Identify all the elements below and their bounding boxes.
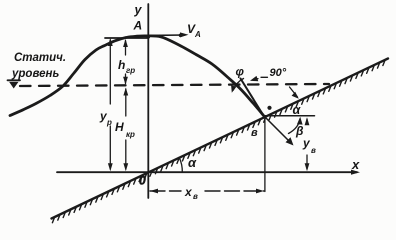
svg-text:h: h (118, 58, 125, 72)
y axis (147, 4, 149, 198)
y_p top arrowhead (108, 38, 113, 46)
svg-text:A: A (133, 19, 143, 33)
inclined ground line (52, 59, 389, 219)
doubled straight stroke of trajectory near impact (241, 79, 264, 116)
svg-text:φ: φ (236, 65, 245, 79)
velocity direction arrow beyond B (264, 116, 291, 143)
velocity vector V_A line (149, 34, 185, 36)
dot at point A (146, 35, 150, 39)
alpha arc arrowhead (292, 92, 299, 99)
H_kr bottom arrowhead (123, 163, 128, 171)
svg-text:Н: Н (115, 120, 124, 134)
dimension h_gr line (125, 41, 127, 84)
svg-text:0: 0 (139, 174, 146, 188)
dot at start of V_A arrowhead (179, 34, 183, 38)
x axis arrowhead (351, 170, 360, 175)
V_A arrowhead (180, 32, 189, 37)
peak level extension line (105, 37, 149, 39)
angle alpha arc at origin (179, 157, 182, 172)
alpha arc at static level crossing (290, 87, 298, 97)
phi arc arrowhead (231, 85, 236, 93)
svg-text:y: y (302, 136, 311, 150)
ground hatching (52, 60, 385, 222)
dimension H_kr line (125, 89, 127, 169)
90deg leader line (253, 77, 268, 79)
phi angle arc (233, 79, 243, 91)
h_gr top arrowhead (123, 39, 128, 47)
y_v top arrowhead (305, 117, 310, 125)
horizontal line from impact point B (264, 115, 315, 117)
dimension y_v line (306, 119, 308, 169)
H_kr top arrowhead (123, 88, 128, 96)
svg-text:кр: кр (126, 130, 135, 139)
y_v bottom arrowhead (305, 163, 310, 171)
svg-text:р: р (106, 118, 112, 127)
x_v left arrowhead (150, 189, 158, 194)
90deg leader arrowhead (250, 76, 258, 81)
x_v right arrowhead (256, 189, 264, 194)
x_v dimension line (150, 190, 264, 192)
svg-text:уровень: уровень (11, 68, 59, 80)
beta arc arrowhead (297, 117, 303, 125)
svg-text:α: α (188, 155, 197, 170)
trajectory curve (groundwater mound / projectile path) (10, 36, 264, 116)
dimension y_p line (109, 40, 111, 169)
svg-text:α: α (293, 103, 302, 117)
dot on incline above B (267, 106, 271, 110)
beta angle arc (289, 119, 301, 134)
h_gr bottom arrowhead (123, 77, 128, 85)
vertical extension below B (264, 116, 266, 192)
x axis (57, 171, 357, 173)
svg-text:в: в (311, 146, 316, 155)
svg-text:в: в (193, 192, 198, 201)
svg-text:x: x (184, 185, 193, 199)
y_p bottom arrowhead (108, 163, 113, 171)
svg-text:x: x (351, 157, 360, 172)
svg-text:A: A (194, 30, 201, 39)
svg-text:в: в (251, 127, 258, 139)
svg-text:Статич.: Статич. (14, 52, 66, 64)
static level symbol (nabla) (8, 79, 21, 81)
static level dashed line (20, 84, 329, 86)
svg-text:y: y (134, 3, 143, 17)
svg-text:90°: 90° (270, 67, 287, 79)
svg-text:гр: гр (126, 66, 135, 75)
